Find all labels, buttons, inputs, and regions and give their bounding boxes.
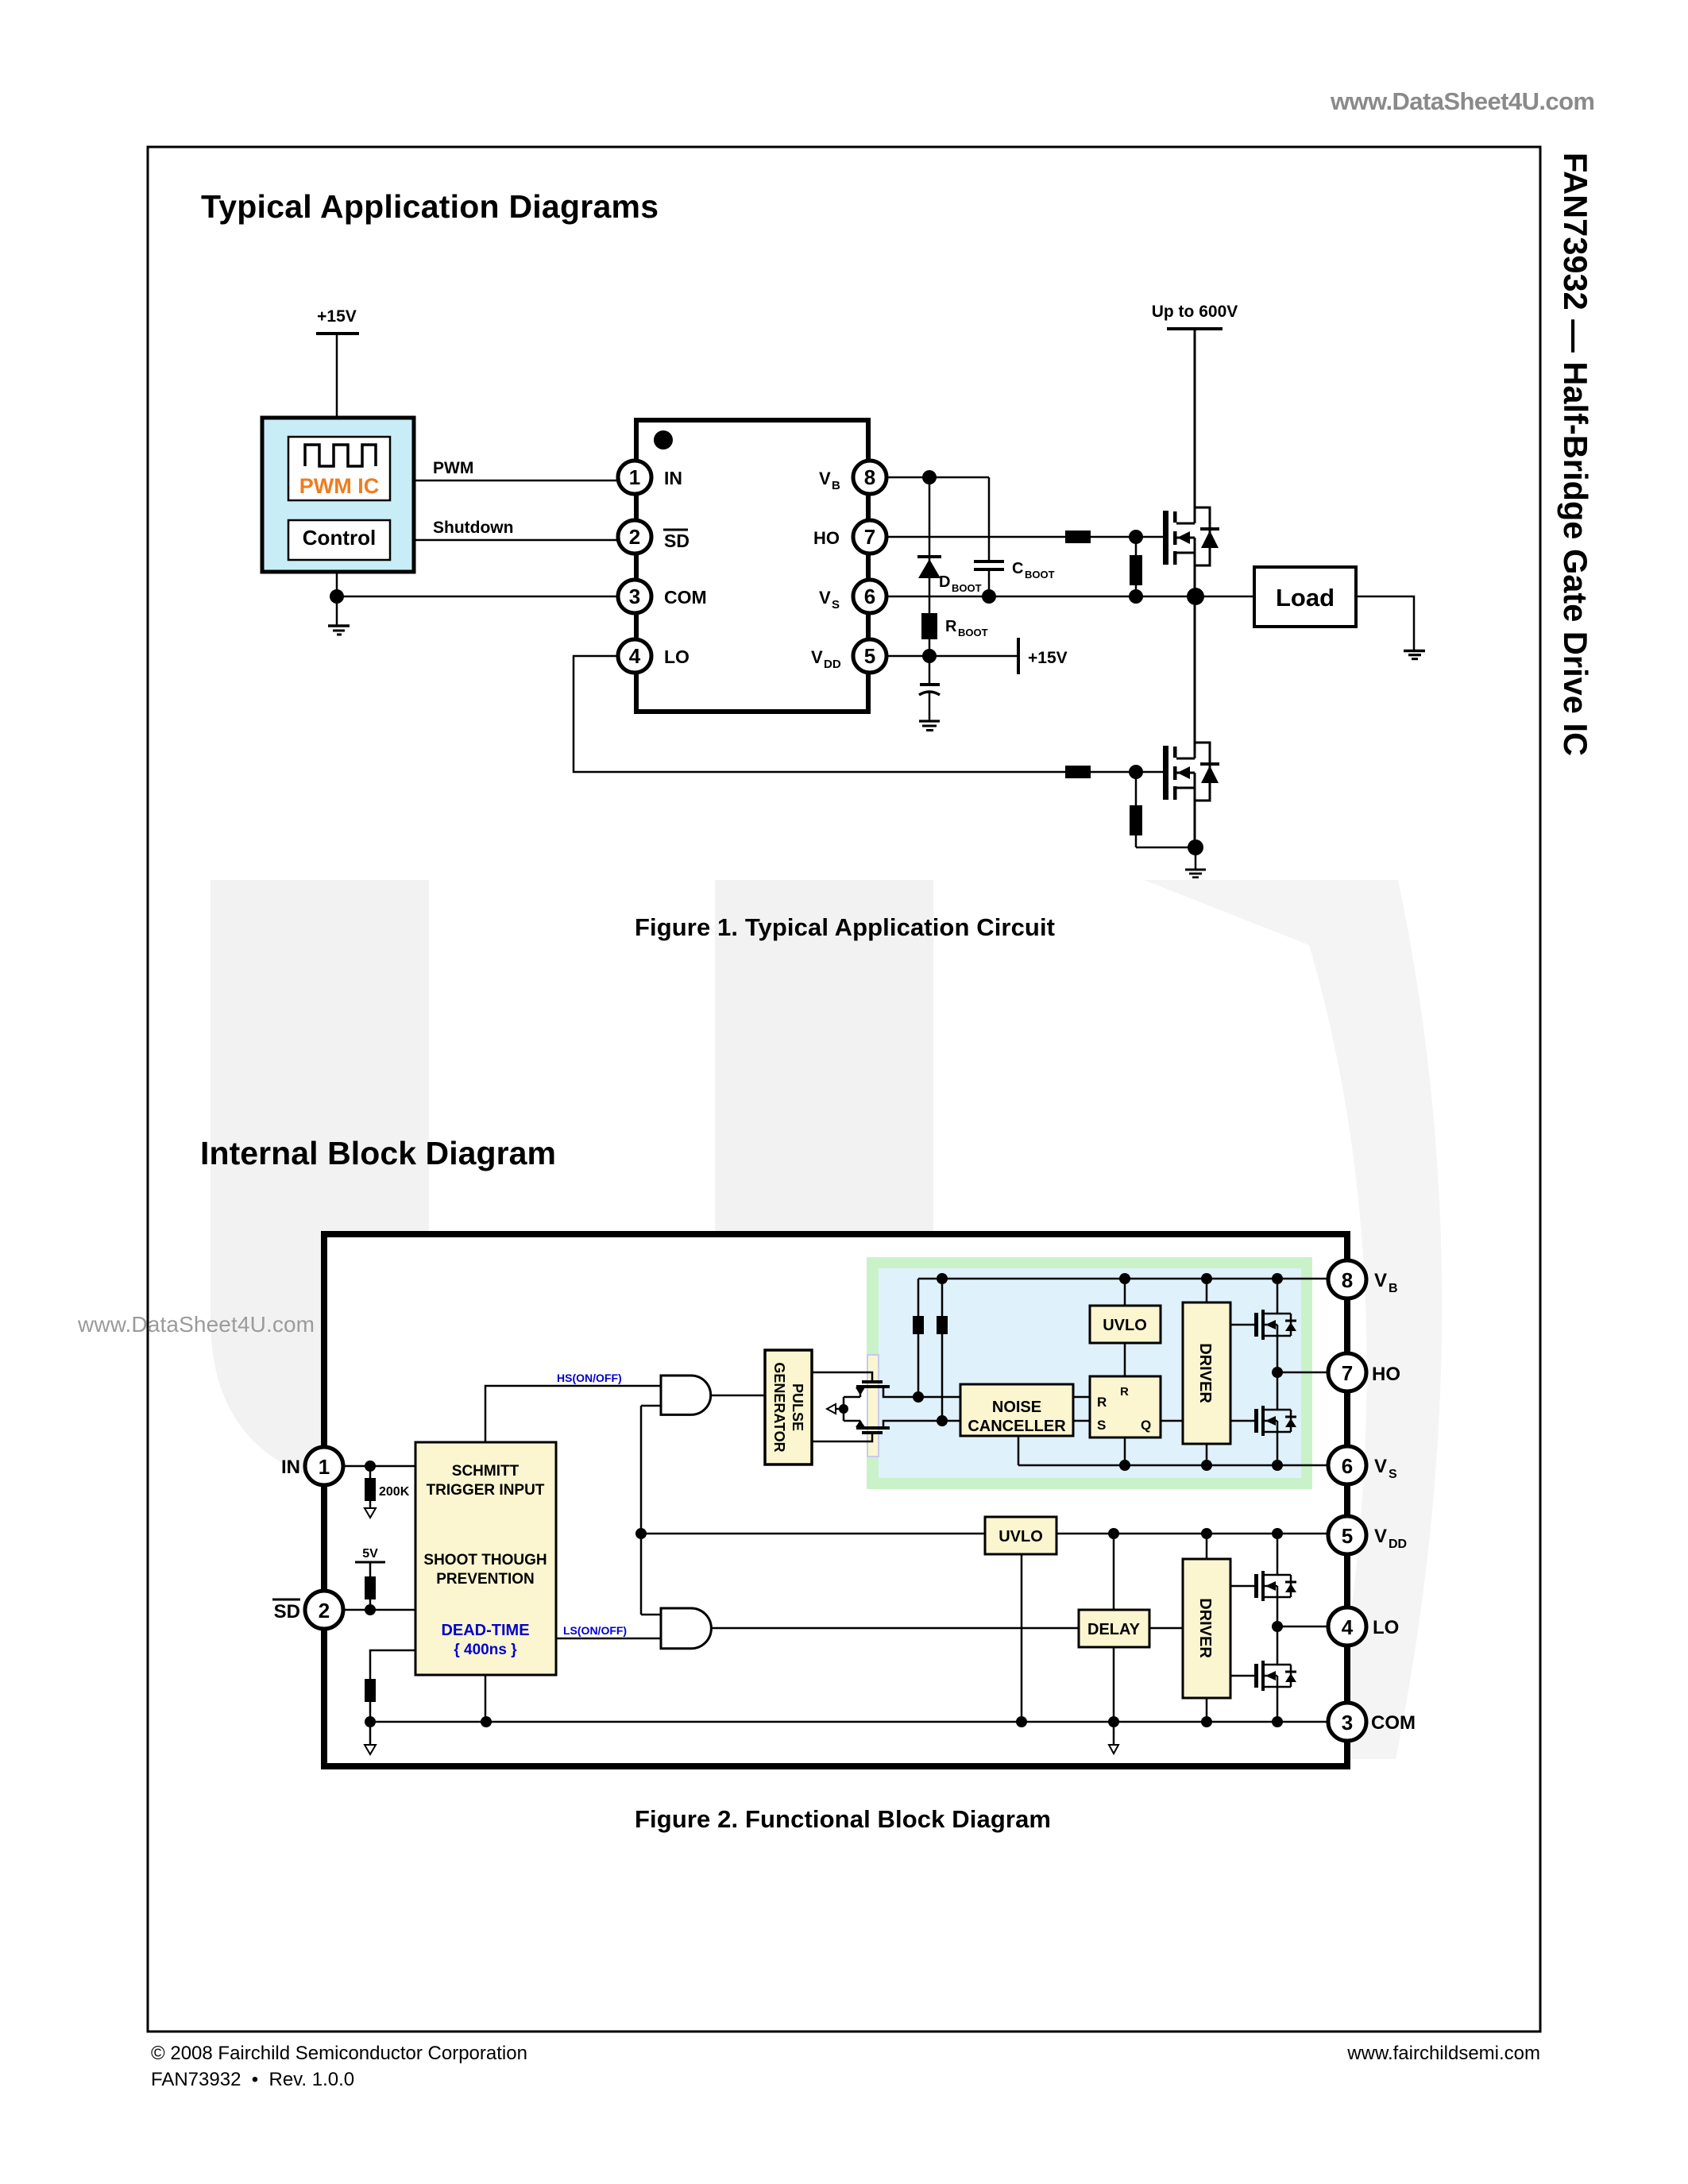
svg-text:7: 7: [1342, 1361, 1353, 1385]
+15V supply (VDD): [1018, 638, 1068, 674]
wire VB: [886, 470, 989, 484]
wire VB to HS fet: [1277, 1279, 1279, 1314]
pin 4 (fig2): [1328, 1607, 1366, 1646]
svg-text:BOOT: BOOT: [1025, 569, 1055, 581]
svg-text:V: V: [1374, 1526, 1387, 1547]
high side inner region: [879, 1268, 1301, 1478]
svg-text:S: S: [832, 598, 840, 612]
wire enable vertical: [635, 1406, 647, 1615]
svg-text:DEAD-TIME: DEAD-TIME: [441, 1622, 529, 1639]
svg-text:Load: Load: [1276, 584, 1335, 612]
load box: [1254, 567, 1356, 627]
wire pulse ls gate: [812, 1434, 872, 1441]
svg-text:{ 400ns }: { 400ns }: [454, 1642, 517, 1658]
wire VDD: [886, 649, 1017, 663]
svg-text:www.DataSheet4U.com: www.DataSheet4U.com: [1330, 87, 1595, 115]
svg-text:V: V: [819, 469, 831, 488]
svg-text:CANCELLER: CANCELLER: [968, 1418, 1066, 1435]
svg-text:Typical Application Diagrams: Typical Application Diagrams: [201, 188, 659, 225]
svg-text:V: V: [1374, 1456, 1387, 1477]
svg-text:LO: LO: [1373, 1617, 1399, 1638]
pin 1: [618, 461, 651, 494]
watermark U: [211, 880, 933, 1491]
pulse generator block: [765, 1350, 812, 1464]
5V supply: [355, 1547, 385, 1576]
pin label VS: [819, 588, 840, 612]
svg-text:FAN73932 — Half-Bridge Gate Dr: FAN73932 — Half-Bridge Gate Drive IC: [1557, 152, 1594, 756]
svg-text:4: 4: [629, 644, 641, 668]
wire IN: [343, 1461, 415, 1472]
svg-text:UVLO: UVLO: [999, 1528, 1043, 1545]
svg-text:LS(ON/OFF): LS(ON/OFF): [563, 1624, 627, 1637]
wire schmitt bottom: [485, 1675, 487, 1722]
svg-text:PREVENTION: PREVENTION: [436, 1571, 535, 1588]
pin 4: [618, 639, 651, 673]
pin 6 (fig2): [1328, 1446, 1366, 1484]
wire Q1 gate: [1091, 530, 1163, 544]
pin label SD (fig2): [272, 1599, 300, 1623]
ground (C1): [919, 721, 940, 731]
resistor (HS reset pullup): [937, 1279, 948, 1426]
pin 5: [853, 639, 886, 673]
svg-text:HS(ON/OFF): HS(ON/OFF): [557, 1372, 622, 1384]
svg-text:5: 5: [1342, 1524, 1353, 1548]
wire VB rail: [918, 1273, 1328, 1284]
pin 1 (fig2): [305, 1447, 343, 1485]
wire VS: [886, 588, 1254, 605]
resistor RBOOT: [921, 613, 988, 656]
noise canceller block: [960, 1384, 1073, 1436]
control block: [288, 520, 390, 560]
svg-text:2: 2: [629, 525, 640, 549]
wire Q2 gate: [1091, 765, 1163, 779]
substrate arrow left: [365, 1722, 376, 1754]
pin 3 (fig2): [1328, 1703, 1366, 1741]
pin 5 (fig2): [1328, 1516, 1366, 1554]
wire 600V rail to Q1 drain: [1194, 329, 1196, 523]
wire UVLO to RS: [1124, 1343, 1126, 1376]
wire NC to S: [1073, 1420, 1090, 1422]
svg-text:7: 7: [864, 525, 875, 549]
wire HO: [886, 536, 1065, 538]
transistor Q1: [1163, 507, 1219, 596]
svg-text:BOOT: BOOT: [952, 582, 982, 594]
svg-text:200K: 200K: [379, 1485, 410, 1499]
capacitor CBOOT: [974, 477, 1055, 596]
FIGURE 1: [262, 303, 1425, 878]
pin label VDD: [811, 647, 841, 671]
pin 2 (fig2): [305, 1591, 343, 1629]
svg-text:V: V: [811, 647, 823, 667]
wire COM: [330, 572, 616, 604]
pin 8 (fig2): [1328, 1260, 1366, 1298]
wire VB to UVLO: [1124, 1279, 1126, 1306]
transistor LS pull-up: [1254, 1571, 1296, 1601]
svg-text:DRIVER: DRIVER: [1196, 1343, 1214, 1403]
svg-text:2: 2: [319, 1599, 330, 1623]
wire LS to delay: [711, 1627, 1079, 1630]
svg-text:LO: LO: [664, 646, 689, 667]
wire Shutdown: [414, 519, 616, 540]
wire schmitt com: [365, 1650, 415, 1722]
+15V supply (PWM IC): [316, 307, 359, 334]
transistor HS pull-up: [1254, 1310, 1296, 1340]
svg-text:S: S: [1097, 1418, 1106, 1433]
transistor Q2: [1163, 743, 1219, 847]
node Q2 source: [1188, 839, 1203, 855]
level shift fet HS: [844, 1380, 960, 1397]
svg-text:www.fairchildsemi.com: www.fairchildsemi.com: [1346, 2043, 1540, 2064]
svg-text:1: 1: [319, 1455, 330, 1479]
pin 7 (fig2): [1328, 1353, 1366, 1391]
svg-text:Figure 1. Typical Application: Figure 1. Typical Application Circuit: [635, 913, 1055, 941]
svg-text:DD: DD: [1389, 1538, 1407, 1551]
driver block (high side): [1183, 1302, 1230, 1444]
svg-text:SD: SD: [664, 531, 689, 551]
pin label VB: [819, 469, 840, 492]
transistor LS pull-down: [1254, 1661, 1296, 1691]
pin 8: [853, 461, 886, 494]
svg-text:Q: Q: [1141, 1418, 1151, 1433]
resistor R4 (Q2 gate pulldown): [1130, 772, 1196, 847]
level shift fet LS: [844, 1420, 960, 1434]
wire PWM: [414, 459, 616, 480]
watermark crescent: [1144, 880, 1442, 1759]
resistor R2 (Q1 gate pulldown): [1130, 537, 1142, 596]
wire NC to R: [1073, 1396, 1090, 1399]
wire LO: [574, 656, 1065, 772]
svg-text:BOOT: BOOT: [958, 627, 988, 639]
node level shift body: [827, 1397, 848, 1421]
substrate arrow (delay): [1109, 1722, 1118, 1754]
svg-text:COM: COM: [1371, 1712, 1416, 1734]
svg-text:DELAY: DELAY: [1087, 1621, 1141, 1638]
svg-text:C: C: [1012, 560, 1023, 577]
svg-text:5: 5: [864, 644, 875, 668]
svg-text:6: 6: [864, 585, 875, 608]
svg-text:R: R: [1120, 1385, 1129, 1399]
svg-text:SCHMITT: SCHMITT: [452, 1463, 520, 1480]
svg-text:NOISE: NOISE: [992, 1399, 1041, 1416]
delay block: [1079, 1610, 1149, 1647]
svg-text:PWM: PWM: [433, 459, 473, 477]
svg-text:www.DataSheet4U.com: www.DataSheet4U.com: [77, 1312, 315, 1337]
wire HS: [485, 1372, 661, 1442]
resistor (SD pullup): [365, 1576, 376, 1610]
wire SD: [343, 1604, 415, 1615]
wire pulse hs gate: [812, 1372, 872, 1380]
svg-text:5V: 5V: [362, 1547, 378, 1561]
wire VDD rail: [1056, 1528, 1328, 1539]
svg-text:B: B: [832, 479, 840, 492]
level shift barrier: [867, 1355, 879, 1457]
svg-text:R: R: [1097, 1395, 1107, 1410]
svg-text:COM: COM: [664, 587, 707, 608]
transistor HS pull-down: [1254, 1406, 1296, 1436]
svg-text:© 2008 Fairchild Semiconductor: © 2008 Fairchild Semiconductor Corporati…: [151, 2043, 527, 2064]
svg-text:4: 4: [1342, 1615, 1354, 1639]
wire HS fet to VS: [1277, 1432, 1279, 1465]
wire driver to COM: [1206, 1698, 1208, 1722]
svg-text:3: 3: [1342, 1711, 1353, 1734]
svg-text:DD: DD: [824, 658, 841, 671]
svg-text:+15V: +15V: [1028, 649, 1068, 667]
svg-text:DRIVER: DRIVER: [1196, 1598, 1214, 1658]
pin 3: [618, 580, 651, 613]
wire LS fet to COM: [1277, 1687, 1279, 1722]
svg-text:R: R: [945, 618, 957, 635]
UVLO block (high side): [1090, 1306, 1161, 1343]
svg-text:SD: SD: [274, 1601, 300, 1623]
svg-text:Up to 600V: Up to 600V: [1152, 303, 1238, 321]
svg-text:TRIGGER INPUT: TRIGGER INPUT: [427, 1482, 545, 1499]
svg-text:Internal Block Diagram: Internal Block Diagram: [200, 1135, 556, 1171]
wire COM rail: [365, 1716, 1328, 1727]
page frame: [148, 147, 1540, 2032]
svg-text:D: D: [939, 573, 950, 591]
pin label VDD (fig2): [1374, 1526, 1407, 1551]
wire driver to LS gates: [1230, 1586, 1254, 1676]
ground (load): [1404, 651, 1425, 659]
AND gate (LS): [641, 1608, 711, 1649]
wire VB to driver: [1206, 1279, 1208, 1302]
wire driver to VS: [1206, 1444, 1208, 1465]
svg-text:HO: HO: [1372, 1364, 1400, 1385]
wire Q to driver: [1161, 1420, 1183, 1422]
wire load to ground: [1356, 596, 1414, 650]
wire HO node: [1272, 1336, 1328, 1410]
svg-text:FAN73932 • Rev. 1.0.0: FAN73932 • Rev. 1.0.0: [151, 2069, 354, 2090]
svg-text:V: V: [819, 588, 831, 608]
svg-text:8: 8: [1342, 1268, 1353, 1292]
pin 2: [618, 520, 651, 554]
AND gate (HS): [641, 1376, 765, 1414]
pin label VS (fig2): [1374, 1456, 1397, 1481]
block diagram frame: [324, 1234, 1347, 1766]
svg-text:SHOOT THOUGH: SHOOT THOUGH: [423, 1552, 547, 1569]
svg-text:B: B: [1389, 1282, 1398, 1295]
wire delay to driver: [1149, 1627, 1183, 1630]
svg-text:1: 1: [629, 465, 640, 489]
pin label SD: [663, 530, 689, 551]
svg-text:+15V: +15V: [317, 307, 357, 326]
wire VDD left: [641, 1533, 985, 1535]
ground (Q2 source): [1185, 847, 1206, 878]
svg-text:S: S: [1389, 1468, 1397, 1481]
svg-text:3: 3: [629, 585, 640, 608]
resistor 200K: [365, 1466, 410, 1518]
svg-text:IN: IN: [281, 1457, 300, 1478]
diode DBOOT: [917, 477, 982, 613]
pin 7: [853, 520, 886, 554]
wire VS rail: [1018, 1436, 1328, 1471]
svg-text:Figure 2. Functional Block Dia: Figure 2. Functional Block Diagram: [635, 1805, 1051, 1833]
wire Vs to Q2 drain: [1194, 596, 1196, 758]
svg-text:8: 8: [864, 465, 875, 489]
pin 6: [853, 580, 886, 613]
resistor (HS set pullup): [913, 1279, 924, 1403]
ground (PWM IC): [328, 596, 350, 635]
wire UVLO to COM: [1021, 1554, 1023, 1722]
svg-text:PWM IC: PWM IC: [299, 474, 380, 498]
high side floating region: [867, 1257, 1312, 1489]
resistor R3 (LO gate): [1065, 766, 1091, 778]
wire delay vertical: [1113, 1534, 1115, 1722]
wire RS to VS: [1124, 1437, 1126, 1465]
svg-text:IN: IN: [664, 468, 682, 488]
svg-text:UVLO: UVLO: [1103, 1317, 1147, 1334]
pin label VB (fig2): [1374, 1270, 1398, 1295]
driver block (low side): [1183, 1559, 1230, 1698]
svg-text:V: V: [1374, 1270, 1387, 1291]
svg-text:Shutdown: Shutdown: [433, 519, 513, 537]
wire LS: [556, 1624, 661, 1638]
IC U1: [636, 420, 868, 712]
wire LO node: [1272, 1597, 1328, 1665]
UVLO block (low side): [985, 1517, 1056, 1554]
svg-text:6: 6: [1342, 1454, 1353, 1478]
Up to 600V supply: [1152, 303, 1238, 329]
capacitor C1 (VDD bypass): [919, 656, 940, 721]
resistor R1 (HO gate): [1065, 531, 1091, 543]
wire driver to HS gates: [1230, 1325, 1254, 1421]
wire VDD to driver: [1206, 1534, 1208, 1559]
pin 1 marker dot: [654, 430, 673, 450]
PWM IC block: [262, 418, 414, 572]
svg-text:Control: Control: [303, 526, 376, 550]
schmitt trigger block: [415, 1442, 556, 1675]
svg-text:HO: HO: [813, 528, 840, 548]
RS latch block: [1090, 1376, 1161, 1437]
wire +15V to PWM IC: [336, 334, 338, 418]
wire VDD to LS fet: [1277, 1534, 1279, 1575]
